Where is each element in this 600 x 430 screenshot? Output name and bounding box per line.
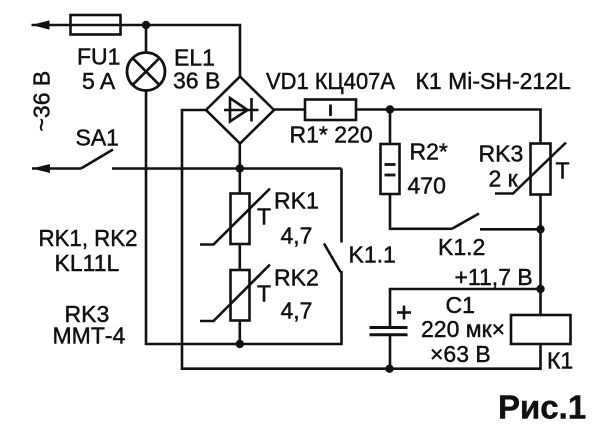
wire bridge plus output to R1 [274,108,305,111]
svg-text:×63 В: ×63 В [430,341,491,367]
bridge rectifier VD1 [206,77,274,144]
wire bridge minus output to bottom rail [182,110,390,369]
svg-text:K1.1: K1.1 [349,242,396,268]
svg-text:VD1 КЦ407А: VD1 КЦ407А [266,68,396,94]
node junction bridge AC bottom / thermistor chain [236,164,244,172]
wire bridge bottom vertex to RK1 [239,144,242,194]
wire R2 top lead [389,110,392,145]
svg-text:T: T [257,281,271,307]
node junction top rail / lamp [142,21,150,29]
wire RK2 bottom [239,321,242,345]
svg-text:C1: C1 [446,292,475,318]
svg-text:+11,7 В: +11,7 В [455,264,533,290]
thermistor RK2 [200,265,270,322]
svg-text:5 A: 5 A [82,68,116,94]
svg-text:К1 Mi-SH-212L: К1 Mi-SH-212L [416,68,571,94]
lamp EL1 [127,53,165,91]
wire RK1 to RK2 [239,244,242,270]
wire R2 bottom to K1.2 [390,194,452,229]
wire RK3 bottom lead [539,195,542,230]
capacitor C1 [370,306,412,335]
svg-text:2 к: 2 к [489,166,519,192]
svg-text:T: T [556,158,570,184]
relay contact K1.2 blade [452,214,479,229]
wire top AC rail [32,25,241,77]
svg-text:FU1: FU1 [77,44,120,70]
svg-text:220 мк×: 220 мк× [421,316,505,342]
wire junction to RK3 top [390,110,541,144]
svg-text:SA1: SA1 [76,125,119,151]
resistor R2 [381,144,400,194]
svg-text:К1: К1 [547,348,573,374]
wire bottom rail to relay [390,344,541,369]
svg-text:~36 В: ~36 В [29,71,55,132]
thermistor RK3 [495,143,566,195]
node junction RK2 bottom rail [236,340,244,348]
wire relay top lead [539,289,542,315]
wire SA1 to K1.1 branch [112,167,342,170]
wire down to +11.7V node [539,229,542,289]
wire +11.7V rail to C1 [390,289,541,327]
svg-text:R2*: R2* [410,139,448,165]
wire K1.1 upper lead [340,169,343,243]
node junction RK3 / K1.2 [536,225,544,233]
node junction C1 bottom rail [385,365,393,373]
switch SA1 [32,150,113,174]
relay contact K1.1 blade [324,244,341,273]
resistor R1 [305,100,356,121]
wire R1 to junction [356,108,390,111]
svg-text:ММТ-4: ММТ-4 [53,323,126,349]
node junction R1 out / R2 [386,105,394,113]
svg-text:RK2: RK2 [274,265,319,291]
svg-text:KL11L: KL11L [55,250,120,276]
svg-text:RK1, RK2: RK1, RK2 [39,225,138,251]
svg-text:RK3: RK3 [479,141,524,167]
svg-text:R1* 220: R1* 220 [290,122,373,148]
wire C1 bottom lead [389,335,392,369]
arrow AC input top [32,20,50,29]
svg-text:36 В: 36 В [173,68,220,94]
node junction +11.7V [536,285,544,293]
svg-text:4,7: 4,7 [281,298,313,324]
svg-text:Рис.1: Рис.1 [498,389,586,426]
fuse FU1 [71,15,121,35]
svg-text:T: T [257,204,271,230]
svg-text:RK1: RK1 [274,188,319,214]
svg-text:470: 470 [408,173,446,199]
relay coil K1 [511,315,571,344]
thermistor RK1 [200,189,270,245]
svg-text:4,7: 4,7 [281,223,313,249]
wire lamp bottom to K1.1 lower lead [146,91,342,345]
wire K1.2 right lead [480,228,541,231]
wire lamp top lead [145,25,148,53]
svg-text:K1.2: K1.2 [438,234,485,260]
